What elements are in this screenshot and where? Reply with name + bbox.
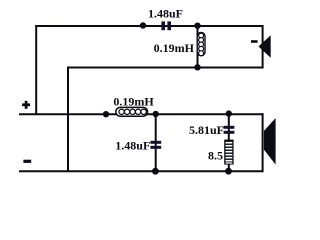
- speaker woofer (cone): [264, 118, 276, 165]
- inductor L2 0.19mH (series, horizontal coil): [116, 107, 148, 116]
- wire: shunt inductor branch: [197, 26, 199, 68]
- node D: plus rail before series inductor: [103, 111, 109, 117]
- node C: bottom of shunt inductor: [194, 64, 200, 70]
- node B: top of shunt inductor: [194, 23, 200, 29]
- svg-text:0.19mH: 0.19mH: [113, 95, 154, 109]
- wire: left vertical from plus rail up to top wire: [35, 25, 37, 114]
- inductor L1 0.19mH (shunt, vertical coil): [197, 32, 205, 55]
- wire: return vertical from top section to minus rail: [67, 67, 69, 172]
- wire: bottom horizontal of top section: [68, 67, 264, 69]
- node F: plus rail at zobel branch: [226, 110, 232, 116]
- capacitor C3 5.81uF (zobel): [224, 126, 235, 134]
- node H: minus rail at zobel branch: [225, 168, 232, 175]
- wire: right vertical through tweeter: [262, 25, 264, 68]
- wire: zobel branch: [228, 114, 230, 171]
- svg-text:1.48uF: 1.48uF: [148, 6, 183, 20]
- wire: plus input rail (bottom section feed): [19, 113, 263, 115]
- plus input terminal mark: [22, 101, 30, 109]
- capacitor C2 1.48uF (shunt, low-pass): [150, 141, 161, 149]
- wire: right vertical through woofer: [262, 113, 264, 172]
- speaker tweeter (cone): [259, 35, 271, 57]
- node E: plus rail at shunt capacitor: [153, 111, 159, 117]
- node G: minus rail at shunt capacitor: [152, 168, 159, 175]
- resistor R1 8.5 ohm (zobel, striped box): [224, 140, 233, 165]
- svg-text:0.19mH: 0.19mH: [154, 41, 195, 55]
- node A: junction on top wire: [140, 22, 146, 28]
- tweeter minus polarity mark: [251, 40, 258, 43]
- wire: shunt capacitor branch: [155, 114, 157, 171]
- svg-text:1.48uF: 1.48uF: [115, 138, 150, 152]
- svg-text:5.81uF: 5.81uF: [189, 123, 224, 137]
- capacitor C1 1.48uF (series, high-pass): [161, 21, 171, 30]
- wire: minus input rail (bottom): [19, 170, 263, 172]
- wire: top horizontal (tweeter feed): [35, 25, 262, 27]
- minus input terminal mark: [23, 160, 31, 163]
- svg-text:8.5: 8.5: [208, 149, 223, 163]
